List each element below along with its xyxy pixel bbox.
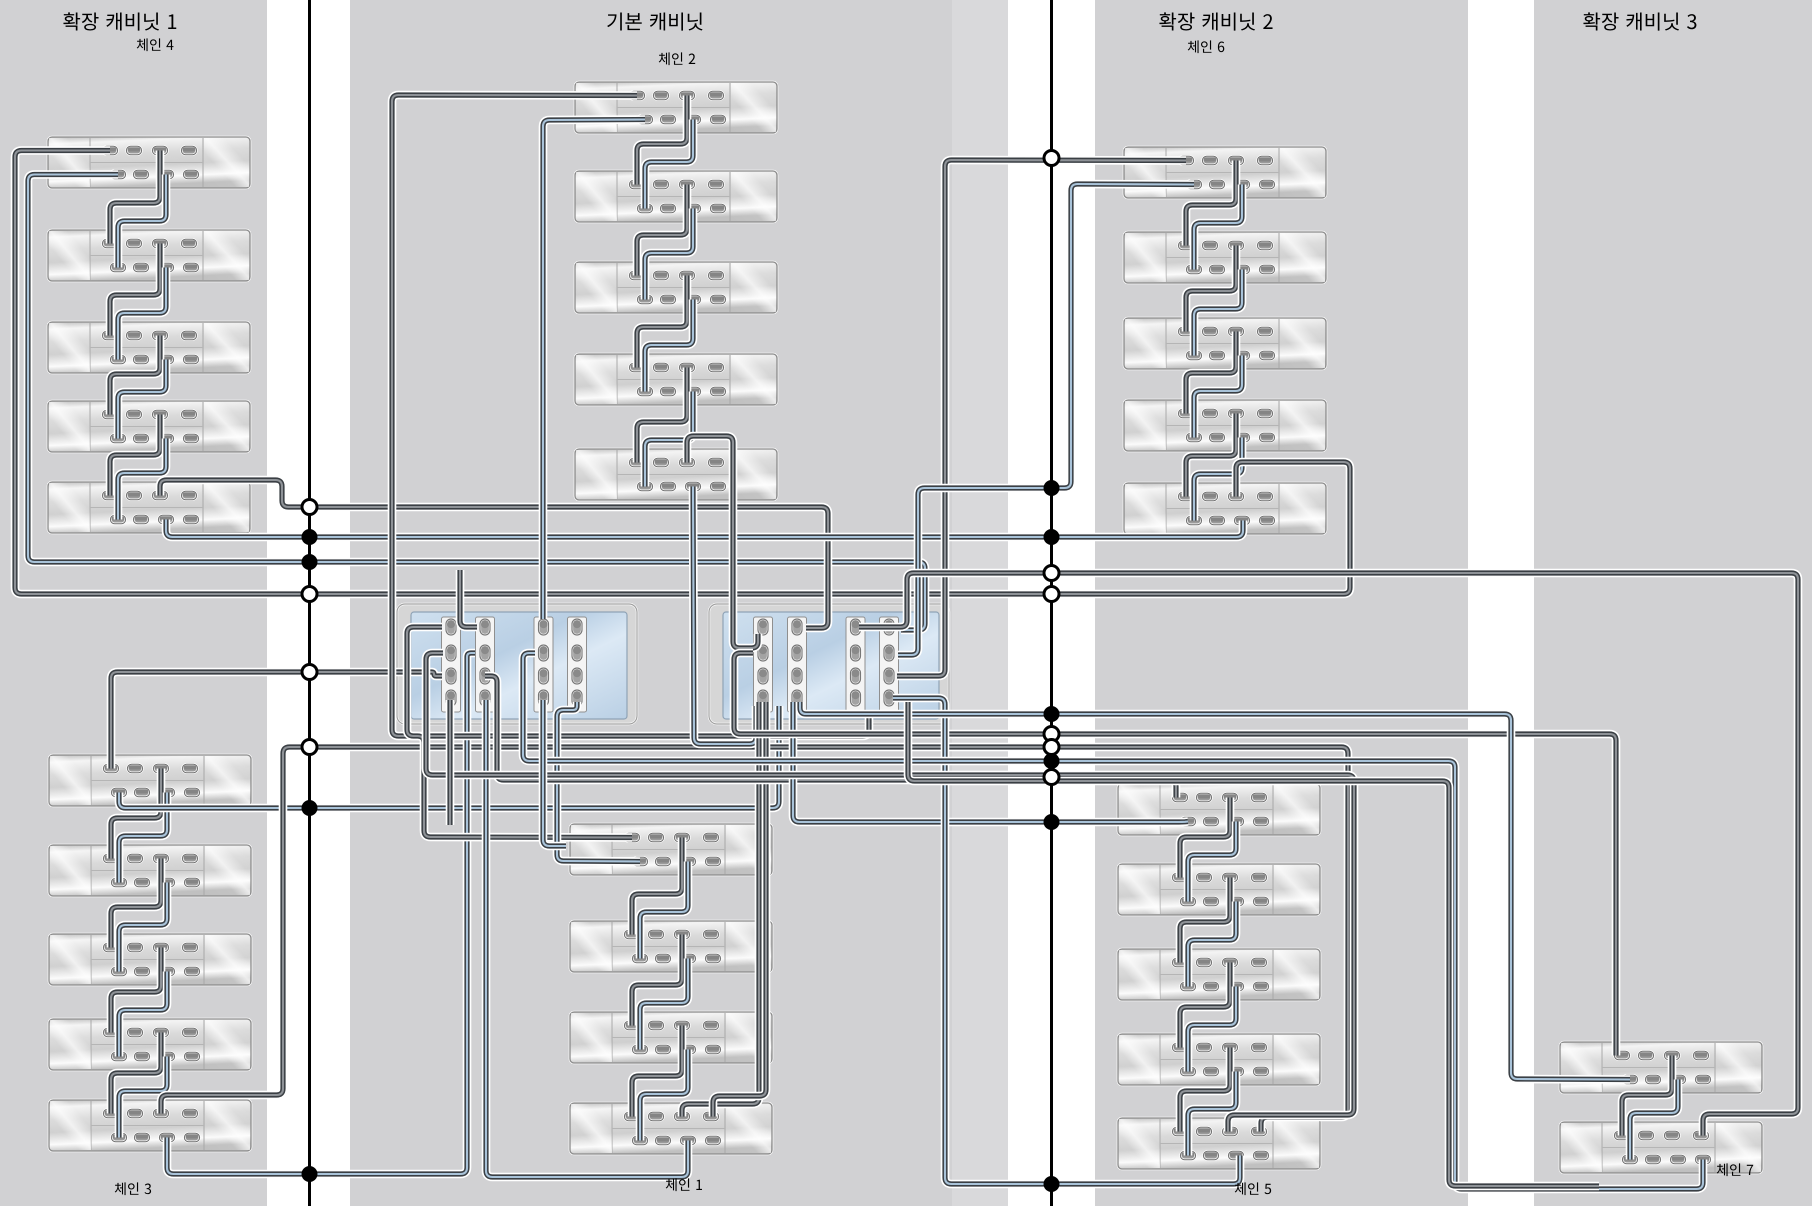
disk shelf cabinet3 chain7 #2 (1560, 1122, 1762, 1173)
disk shelf cabinet1 chain4 #4 (48, 401, 250, 452)
cable head2 to chain1 shelf4 p4 (713, 702, 766, 1117)
crossing marker b2 y488 (1044, 480, 1060, 496)
cable chain1 shelf1-shelf2 bottom (640, 862, 688, 959)
disk shelf base chain2 #4 (575, 354, 777, 405)
cable chain5 shelf1-shelf2 top (1180, 798, 1230, 878)
cable chain3 shelf5 to head1 slot2 port2 (167, 653, 475, 1174)
cable chain4 shelf5 to head2 slot2 port1 (160, 480, 828, 628)
cable chain2 shelf1-shelf2 bottom (645, 120, 693, 209)
cabinet band: expansion cabinet 1 (0, 0, 267, 1206)
cable chain6 shelf2-shelf3 bottom (1194, 270, 1242, 356)
cable chain2 shelf5 top to head2 slot1 (687, 436, 758, 648)
disk shelf base chain1 #4 (570, 1103, 772, 1154)
cable chain1 shelf1-shelf2 top (632, 838, 682, 935)
disk shelf cabinet1 chain3 #1 (49, 755, 251, 806)
label cabinet 2 (1159, 12, 1272, 30)
disk shelf cabinet2 chain6 #5 (1124, 483, 1326, 534)
disk shelf cabinet2 chain6 #2 (1124, 232, 1326, 283)
disk shelf cabinet3 chain7 #1 (1560, 1042, 1762, 1093)
disk shelf base chain1 #2 (570, 921, 772, 972)
cable chain2 shelf1 top to head2 (392, 95, 869, 736)
cable chain5 shelf4-shelf5 top (1180, 1048, 1230, 1132)
label chain 1 (666, 1178, 702, 1191)
cabinet band: expansion cabinet 2 (1095, 0, 1468, 1206)
cable chain7 shelf1-shelf2 top (1622, 1056, 1672, 1136)
cable chain3 shelf3-shelf4 top (111, 948, 161, 1033)
crossing marker b2 y747 (1044, 740, 1059, 755)
crossing marker b1 y507 (302, 500, 317, 515)
cable chain5 shelf3-shelf4 top (1180, 963, 1230, 1048)
cable chain6 shelf3-shelf4 bottom (1194, 356, 1242, 438)
cable head1 slot1 port1 to chain1 shelf1 top (407, 627, 632, 838)
cable chain1 shelf2-shelf3 top (632, 935, 682, 1026)
label cabinet 1 (63, 12, 176, 30)
cable chain2 shelf3-shelf4 top (637, 276, 687, 368)
cable chain5 shelf1 bottom to head2 slot2 port4 (793, 702, 1188, 822)
cabinet band: base cabinet (350, 0, 1008, 1206)
cable chain2 shelf2-shelf3 bottom (645, 209, 693, 300)
cable chain4 shelf1 to chain6 shelf5 top (15, 151, 1350, 595)
crossing marker b1 y1174 (302, 1166, 318, 1182)
cable head1 slot1 port2 to chain5 shelf5 top (426, 653, 1354, 1132)
cable chain4 shelf4-shelf5 top (110, 415, 160, 496)
disk shelf base chain2 #3 (575, 262, 777, 313)
cable chain6 shelf1 top to head2 slot4 port3 (897, 160, 1186, 676)
cable chain6 shelf1-shelf2 top (1186, 161, 1236, 246)
cable chain4 shelf3-shelf4 top (110, 336, 160, 415)
cable chain1 shelf3-shelf4 top (632, 1026, 682, 1117)
cable head2 slot3 port1 to chain7 shelf2 p4 (859, 573, 1798, 1136)
crossing marker b1 y594 (302, 587, 317, 602)
cable chain2 shelf3-shelf4 bottom (645, 300, 693, 392)
cable chain5 shelf3-shelf4 bottom (1188, 987, 1236, 1072)
controller head 1 (397, 604, 637, 724)
disk shelf cabinet1 chain3 #2 (49, 845, 251, 896)
cable chain5 shelf4-shelf5 bottom (1188, 1072, 1236, 1156)
cable head2 slot4 port4 to chain5 shelf5 bottom (893, 698, 1240, 1184)
disk shelf cabinet1 chain4 #5 (48, 482, 250, 533)
cable chain3 shelf4-shelf5 bottom (119, 1057, 167, 1138)
cable chain5 shelf2-shelf3 top (1180, 878, 1230, 963)
cable head1 slot3 port4 down (543, 700, 566, 846)
cable chain5 shelf1-shelf2 bottom (1188, 822, 1236, 902)
label chain 3 (115, 1182, 151, 1195)
cable chain3 shelf2-shelf3 top (111, 859, 161, 948)
crossing marker b2 y734 (1044, 727, 1059, 742)
label chain 6 (1188, 40, 1225, 53)
cable chain3 shelf1 to head1 slot1 port3 (111, 672, 442, 769)
cable chain3 shelf1-shelf2 top (111, 769, 161, 859)
crossing marker b2 y1184 (1044, 1176, 1060, 1192)
cable chain6 shelf2-shelf3 top (1186, 246, 1236, 332)
cable chain2 shelf1-shelf2 top (637, 96, 687, 185)
cable chain3 shelf4-shelf5 top (111, 1033, 161, 1114)
crossing marker b2 y761 (1044, 753, 1060, 769)
cable chain3 shelf1-shelf2 bottom (119, 793, 167, 883)
crossing marker b1 y562 (302, 554, 318, 570)
cable chain1 shelf4 bottom to head1 slot2 port4 (486, 700, 688, 1177)
crossing marker b2 y777 (1044, 770, 1059, 785)
disk shelf base chain1 #3 (570, 1012, 772, 1063)
disk shelf cabinet2 chain5 #2 (1118, 864, 1320, 915)
cable chain2 shelf4-shelf5 top (637, 368, 687, 463)
disk shelf cabinet2 chain6 #4 (1124, 400, 1326, 451)
crossing marker b2 y573 (1044, 566, 1059, 581)
cable chain3 shelf5 to chain5 shelf5 p4 (161, 747, 1348, 1132)
cabinet boundary line 2 (1050, 0, 1053, 1206)
disk shelf base chain2 #1 (575, 82, 777, 133)
cable chain1 shelf3-shelf4 bottom (640, 1050, 688, 1141)
crossing marker b2 y822 (1044, 814, 1060, 830)
disk shelf cabinet1 chain3 #3 (49, 934, 251, 985)
controller head 2 (709, 604, 949, 724)
disk shelf cabinet1 chain3 #5 (49, 1100, 251, 1151)
disk shelf cabinet1 chain4 #1 (48, 137, 250, 188)
label base cabinet (607, 12, 702, 30)
cable head1 slot2 port1 up (460, 570, 477, 627)
cable chain6 shelf4-shelf5 top (1186, 414, 1236, 497)
label chain 5 (1235, 1182, 1271, 1195)
crossing marker b2 y714 (1044, 706, 1060, 722)
cable chain1 shelf2-shelf3 bottom (640, 959, 688, 1050)
cable chain4 shelf2-shelf3 bottom (118, 268, 166, 360)
cabinet band: base cabinet light margin (952, 0, 1008, 1206)
cable chain3 shelf3-shelf4 bottom (119, 972, 167, 1057)
cabinet boundary line 1 (308, 0, 311, 1206)
cable chain3 shelf2-shelf3 bottom (119, 883, 167, 972)
disk shelf cabinet2 chain6 #1 (1124, 147, 1326, 198)
disk shelf cabinet2 chain5 #5 (1118, 1118, 1320, 1169)
disk shelf cabinet2 chain5 #4 (1118, 1034, 1320, 1085)
cable head2 slot1 to chain1 shelf4 top (682, 702, 759, 1117)
cable chain2 shelf2-shelf3 top (637, 185, 687, 276)
crossing marker b1 y808 (302, 800, 318, 816)
cable chain6 shelf1-shelf2 bottom (1194, 185, 1242, 270)
cable chain4 shelf4-shelf5 bottom (118, 439, 166, 520)
cable chain6 shelf3-shelf4 top (1186, 332, 1236, 414)
cable chain3 shelf1 to head2 slot2 (119, 706, 779, 808)
label chain 2 (659, 52, 695, 65)
cable head2 down to cabinet3 bottom lane (908, 702, 1599, 1186)
cable chain2 shelf4-shelf5 bottom (645, 392, 693, 487)
cable head1 slot4 port4 to chain1 shelf1 bottom (557, 702, 640, 862)
cable chain6 shelf1 bottom to head2 slot4 port2 (898, 184, 1194, 655)
cable chain4 shelf2-shelf3 top (110, 244, 160, 336)
disk shelf cabinet1 chain3 #4 (49, 1019, 251, 1070)
disk shelf cabinet2 chain6 #3 (1124, 318, 1326, 369)
cable chain4 shelf1-shelf2 top (110, 151, 160, 244)
cable head2 slot1 port2 to chain7 shelf1 top (734, 653, 1616, 1056)
disk shelf cabinet1 chain4 #3 (48, 322, 250, 373)
cable head1 slot2 port3 to chain5 shelf1 top (485, 676, 1176, 798)
cable head2 slot2 port4 to chain7 shelf1 bottom (800, 702, 1630, 1080)
disk shelf cabinet2 chain5 #1 (1118, 784, 1320, 835)
label cabinet 3 (1583, 12, 1696, 30)
cable chain4 shelf1-shelf2 bottom (118, 175, 166, 268)
cable chain4 shelf5 to chain6 shelf5 bottom (166, 520, 1243, 538)
disk shelf cabinet2 chain5 #3 (1118, 949, 1320, 1000)
cable chain4 shelf1 to head2 slot4 port1 (28, 175, 925, 631)
cable chain2 shelf1 bottom to head1 slot3 (543, 120, 645, 620)
disk shelf base chain1 #1 (570, 824, 772, 875)
crossing marker b2 y594 (1044, 587, 1059, 602)
cable chain2 shelf5 bottom to head2 slot1 port4 (693, 487, 756, 745)
disk shelf base chain2 #2 (575, 171, 777, 222)
cabinet band: expansion cabinet 3 (1534, 0, 1812, 1206)
disk shelf base chain2 #5 (575, 449, 777, 500)
cable head1 slot3 port2 to chain7 shelf2 bottom (523, 653, 1703, 1189)
cable chain6 shelf4-shelf5 bottom (1194, 438, 1242, 521)
crossing marker b1 y747 (302, 740, 317, 755)
label chain 4 (137, 38, 174, 51)
cable chain5 shelf2-shelf3 bottom (1188, 902, 1236, 987)
crossing marker b1 y537 (302, 529, 318, 545)
crossing marker b2 y158 (1044, 151, 1059, 166)
cable chain4 shelf3-shelf4 bottom (118, 360, 166, 439)
disk shelf cabinet1 chain4 #2 (48, 230, 250, 281)
crossing marker b1 y672 (302, 665, 317, 680)
cable head1 slot1 port4 down (446, 700, 455, 825)
cable chain7 shelf1-shelf2 bottom (1630, 1080, 1678, 1160)
crossing marker b2 y537 (1044, 529, 1060, 545)
label chain 7 (1717, 1163, 1753, 1176)
